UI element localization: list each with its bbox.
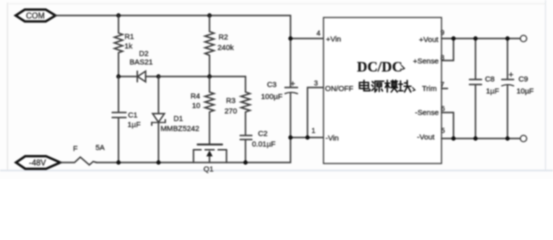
terminal +V output (520, 35, 526, 41)
svg-text:10: 10 (192, 101, 200, 110)
wire +Vin (291, 38, 324, 40)
capacitor C8 (470, 39, 500, 139)
wire -Sense loop (442, 113, 454, 139)
svg-text:0.01µF: 0.01µF (252, 140, 276, 149)
return mark after DC/DC (402, 66, 405, 70)
svg-text:C1: C1 (128, 111, 138, 120)
wire -Vout rail (442, 138, 521, 140)
svg-text:COM: COM (26, 12, 45, 21)
svg-text:R4: R4 (191, 92, 201, 101)
wire top rail COM to corner (56, 16, 291, 39)
resistor R2 (205, 16, 234, 77)
pin 7 Trim stub (442, 88, 448, 90)
resistor R4 (191, 77, 215, 144)
node D2/D1 (156, 74, 160, 78)
svg-text:-Vout: -Vout (417, 133, 435, 142)
node -Vin (288, 135, 292, 139)
terminal -V output (520, 135, 526, 141)
node D1 bottom (156, 160, 160, 164)
resistor R1 (114, 16, 134, 77)
svg-text:240k: 240k (218, 43, 235, 52)
wire D2 row (119, 76, 138, 78)
node C1 bottom (116, 160, 120, 164)
capacitor C1 (112, 77, 141, 163)
page border right (545, 0, 547, 170)
node +Vin (288, 36, 292, 40)
svg-text:BAS21: BAS21 (130, 58, 153, 67)
wire +Vout rail (442, 38, 521, 40)
wire ON/OFF drop (308, 88, 324, 138)
node C2 bottom (243, 160, 247, 164)
capacitor C3 (261, 39, 298, 138)
module U1 DC/DC box (324, 18, 442, 164)
resistor R3 (225, 77, 251, 135)
svg-text:R3: R3 (226, 96, 236, 105)
svg-text:D1: D1 (174, 114, 184, 123)
wire D2 row right (159, 76, 246, 78)
svg-text:1µF: 1µF (128, 120, 141, 129)
node R1 top (116, 13, 120, 17)
svg-text:R2: R2 (219, 33, 229, 42)
svg-text:-Sense: -Sense (415, 108, 439, 117)
node C8 bottom (473, 136, 477, 140)
glyph 模 (385, 80, 398, 92)
node R4 top (207, 74, 211, 78)
node +Sense (451, 36, 455, 40)
svg-text:-48V: -48V (29, 159, 47, 168)
capacitor C2 (240, 129, 276, 163)
svg-text:C9: C9 (519, 75, 529, 84)
node C1 top (116, 74, 120, 78)
svg-text:DC/DC: DC/DC (357, 60, 402, 76)
svg-text:5: 5 (441, 128, 445, 135)
svg-text:+Vout: +Vout (419, 35, 439, 44)
svg-text:4: 4 (317, 31, 321, 38)
node R2 top (207, 13, 211, 17)
svg-text:1k: 1k (125, 42, 133, 51)
node -Sense (451, 136, 455, 140)
svg-text:Q1: Q1 (204, 165, 214, 174)
node C9 top (505, 36, 509, 40)
svg-text:C8: C8 (485, 75, 495, 84)
svg-text:+Vin: +Vin (326, 35, 341, 44)
svg-text:5A: 5A (96, 143, 105, 152)
terminal -48V (16, 156, 60, 169)
svg-text:+Sense: +Sense (413, 57, 439, 66)
node ON/OFF drop (305, 135, 309, 139)
svg-text:1µF: 1µF (486, 87, 499, 96)
page border left (7, 3, 9, 170)
diode D2 (130, 49, 159, 82)
svg-text:270: 270 (225, 107, 238, 116)
svg-text:MMBZ5242: MMBZ5242 (161, 124, 200, 133)
svg-text:F: F (73, 144, 78, 153)
svg-text:C2: C2 (258, 129, 268, 138)
zener D1 (152, 77, 200, 163)
svg-text:9: 9 (441, 30, 445, 37)
svg-text:-Vin: -Vin (326, 134, 339, 143)
svg-text:3: 3 (314, 81, 318, 88)
fuse F (60, 143, 104, 165)
svg-text:1: 1 (312, 128, 316, 135)
glyph 源 (372, 81, 384, 92)
page border bottom (0, 170, 553, 172)
glyph 块 (399, 81, 412, 93)
return mark after 模块 (413, 88, 416, 91)
node C9 bottom (505, 136, 509, 140)
svg-text:D2: D2 (139, 49, 149, 58)
page border top (9, 3, 545, 5)
transistor Q1 (194, 144, 227, 174)
node C8 top (473, 36, 477, 40)
capacitor C9 (502, 39, 534, 139)
svg-text:100µF: 100µF (261, 92, 283, 101)
terminal COM (16, 10, 56, 22)
svg-text:10µF: 10µF (517, 87, 535, 96)
wire +Sense loop (442, 39, 454, 61)
svg-text:ON/OFF: ON/OFF (325, 84, 354, 93)
label 电源模块 (power module) (360, 66, 416, 93)
svg-text:Trim: Trim (422, 84, 437, 93)
wire bottom rail (97, 138, 291, 163)
svg-text:R1: R1 (125, 32, 135, 41)
glyph 电 (360, 80, 370, 91)
svg-text:C3: C3 (267, 80, 277, 89)
wire -Vin row (291, 137, 324, 139)
